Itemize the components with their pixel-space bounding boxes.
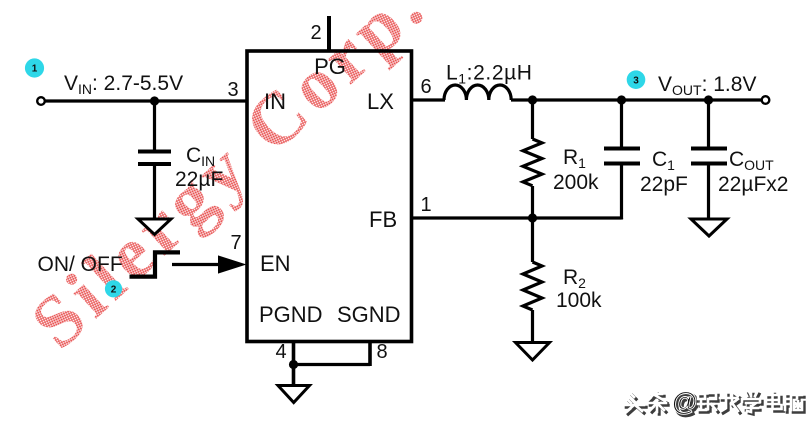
ground (COUT) <box>691 219 727 236</box>
node 3 badge <box>627 70 646 89</box>
ground (CIN) <box>138 219 171 235</box>
svg-text:LX: LX <box>367 89 394 114</box>
svg-text:22µF: 22µF <box>175 168 223 191</box>
svg-text:200k: 200k <box>553 171 599 194</box>
svg-text:2: 2 <box>310 22 321 44</box>
output terminal <box>762 96 770 104</box>
wire LX to inductor <box>412 98 446 101</box>
junction FB node <box>528 213 537 222</box>
node 1 badge <box>25 58 44 77</box>
node 2 badge <box>105 280 122 297</box>
svg-text:SGND: SGND <box>337 302 401 327</box>
resistor R2 <box>523 218 542 343</box>
wire VIN to IN pin <box>45 99 247 102</box>
svg-text:4: 4 <box>275 341 286 363</box>
svg-text:1: 1 <box>420 194 431 216</box>
junction COUT top <box>704 95 713 104</box>
wire inductor to output terminal <box>511 98 762 101</box>
svg-text:7: 7 <box>230 232 241 254</box>
capacitor C1 <box>604 100 640 219</box>
watermark "Silergy Corp." <box>16 0 443 365</box>
wire FB net <box>412 216 622 219</box>
enable arrow wire <box>172 263 222 266</box>
svg-text:2: 2 <box>111 285 117 296</box>
enable arrowhead <box>218 255 247 273</box>
ground (IC) <box>278 386 310 403</box>
input terminal <box>37 97 45 105</box>
svg-text:PGND: PGND <box>259 302 323 327</box>
svg-text:VOUT: 1.8V: VOUT: 1.8V <box>658 73 756 98</box>
inductor L1 <box>444 85 511 100</box>
pin 4 stub (PGND) <box>292 342 296 387</box>
svg-text:EN: EN <box>260 251 291 276</box>
resistor R1 <box>523 100 542 219</box>
enable step waveform symbol <box>130 252 181 276</box>
svg-text:L1:2.2µH: L1:2.2µH <box>446 62 533 87</box>
svg-text:@: @ <box>672 386 697 416</box>
capacitor CIN <box>138 101 171 220</box>
pin 2 stub (PG) <box>327 16 331 51</box>
op-amp U1 (converter IC body) <box>247 51 412 342</box>
svg-text:VIN: 2.7-5.5V: VIN: 2.7-5.5V <box>64 72 183 97</box>
svg-text:3: 3 <box>633 75 639 86</box>
svg-text:6: 6 <box>420 76 431 98</box>
svg-text:R1: R1 <box>563 146 586 171</box>
svg-text:100k: 100k <box>556 289 602 312</box>
capacitor COUT <box>691 100 727 219</box>
svg-text:8: 8 <box>376 341 387 363</box>
svg-text:22pF: 22pF <box>640 173 688 196</box>
svg-text:ON/ OFF: ON/ OFF <box>38 253 123 276</box>
ground (R2) <box>516 343 550 361</box>
svg-text:R2: R2 <box>563 266 586 291</box>
svg-text:22µFx2: 22µFx2 <box>718 173 788 196</box>
svg-text:FB: FB <box>369 207 397 232</box>
wire C1 bottom to FB net <box>620 218 623 220</box>
svg-text:3: 3 <box>227 79 238 101</box>
svg-text:PG: PG <box>314 54 346 79</box>
junction C1 top <box>617 95 626 104</box>
pin 8 stub (SGND) <box>368 342 372 367</box>
wire joining pins 4 and 8 <box>294 363 371 366</box>
corner watermark "toutiao @genwoxuediannao" <box>624 386 804 418</box>
svg-text:COUT: COUT <box>729 148 774 173</box>
svg-text:C1: C1 <box>652 148 675 173</box>
svg-text:IN: IN <box>264 89 286 114</box>
junction R1 top <box>528 95 537 104</box>
svg-text:1: 1 <box>32 64 38 75</box>
junction PGND node <box>289 360 298 369</box>
junction CIN node <box>150 96 159 105</box>
